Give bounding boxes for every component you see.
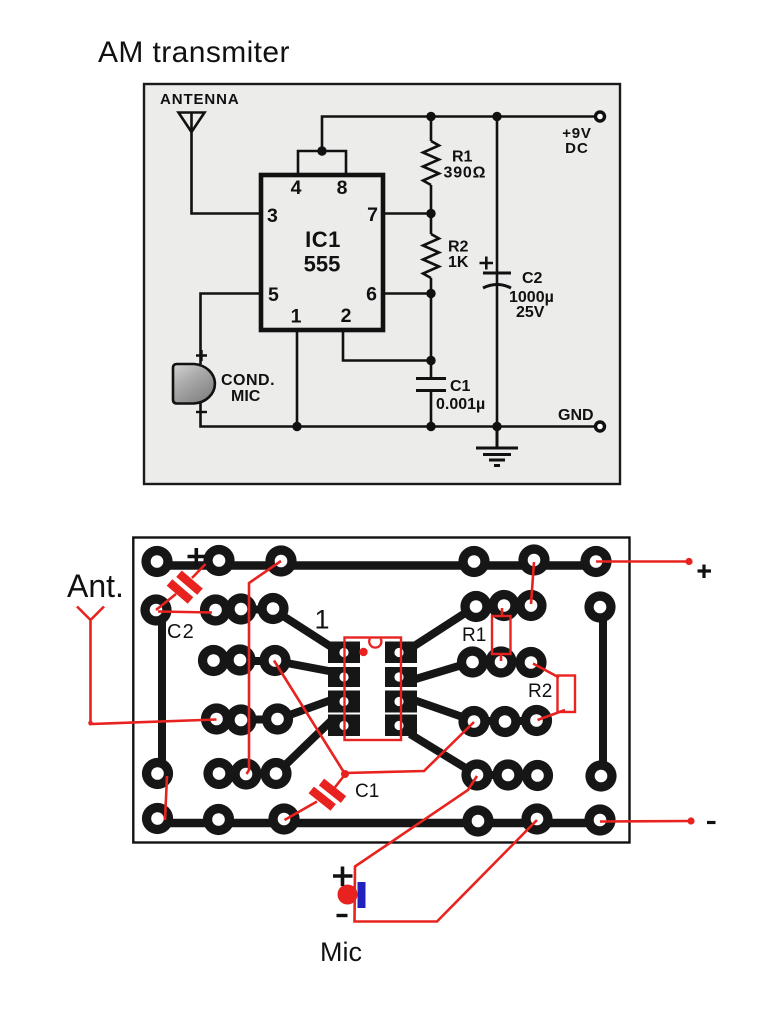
svg-text:1K: 1K [448,254,469,271]
junction C2 top [492,112,501,121]
wire R1 top [430,117,433,142]
trace pad to IC pin1 [273,610,336,651]
svg-text:MIC: MIC [231,388,261,405]
wire pin 2 to C1 top node [343,330,431,361]
resistor R1 [423,141,439,185]
svg-text:R2: R2 [448,239,469,256]
svg-text:6: 6 [366,284,377,306]
capacitor C1 plates [416,379,446,391]
plus sign supply right [698,565,712,579]
capacitor C2 silkscreen plates [170,574,201,601]
schematic texts [160,91,594,424]
svg-text:C2: C2 [167,621,195,643]
node C1 junction dot [341,770,349,778]
svg-text:GND: GND [558,407,594,424]
node - terminal dot [687,817,694,824]
svg-text:25V: 25V [516,304,545,321]
wire mic minus to ground rail [201,403,601,427]
svg-text:C1: C1 [355,781,379,802]
junction R1 top [426,112,435,121]
trace left vertical [158,609,166,774]
resistor R2 [423,234,439,278]
trace bottom rail [157,819,600,828]
schematic frame [144,84,620,484]
minus sign mic schematic [196,411,207,413]
trace row2 right group [476,602,531,610]
wire row5 to bottom rail left [165,776,167,820]
pads row 2 [140,594,171,625]
wire pin 6 node [383,292,431,295]
junction pin 7 node [426,209,435,218]
wire top rail to +9V [322,117,600,152]
plus sign mic [333,867,353,887]
wire pins 4-8 bracket [298,151,346,176]
trace row4 left group [216,716,277,724]
wire C1 node to pin6 pad [345,722,474,773]
wire mic plus [355,776,538,922]
wire pin 5 to mic + [201,294,262,365]
IC square pads [328,642,417,737]
pads row 3 [198,645,229,676]
IC notch [369,639,381,648]
IC square pad holes [339,648,403,730]
trace top rail [157,561,596,570]
junction pins 4-8 [317,146,326,155]
svg-text:R1: R1 [462,625,486,646]
trace pad to IC pin5 [410,734,477,775]
minus sign mic [337,914,348,917]
svg-text:7: 7 [367,204,378,226]
node + terminal dot [685,558,692,565]
svg-text:R1: R1 [452,149,473,166]
microphone symbol red body [338,885,358,905]
plus sign mic schematic [196,350,207,361]
svg-text:DC: DC [565,140,589,157]
antenna symbol [179,113,205,133]
trace pad to IC pin3 [277,699,334,720]
pads row 1 [141,546,172,577]
junction C1 ground [426,422,435,431]
plus sign C2 schematic [480,257,494,270]
svg-text:IC1: IC1 [305,227,341,252]
wire C1 bottom [430,390,433,427]
capacitor C2 silkscreen leads [156,564,206,610]
pcb board outline [133,538,629,843]
svg-text:Mic: Mic [320,937,362,967]
trace pad to IC pin7 [409,662,472,681]
wire C2 branch [496,117,499,427]
resistor R2 silkscreen [558,676,576,713]
wire pin 7 to R1/R2 node [383,212,431,215]
svg-text:COND.: COND. [221,372,275,389]
IC1 555 body [261,175,383,330]
svg-text:1: 1 [314,605,329,635]
microphone blue electret bar [358,882,366,908]
junction pin 6 node [426,289,435,298]
svg-text:0.001µ: 0.001µ [436,396,485,413]
IC1 outline silkscreen [345,638,402,741]
svg-text:C2: C2 [522,270,543,287]
ground symbol [476,426,518,466]
svg-text:2: 2 [341,305,352,327]
red terminal dots [88,558,694,825]
capacitor C1 silkscreen plates [311,782,343,807]
svg-text:390Ω: 390Ω [444,165,487,182]
wire C2 to pad2 [158,612,212,613]
trace pad to IC pin6 [411,699,474,721]
resistor R1 silkscreen [492,616,511,654]
trace right vertical [599,607,607,776]
svg-text:3: 3 [267,205,278,227]
trace pad to IC pin4 [276,718,334,774]
wire antenna to pin 3 [192,132,262,214]
svg-text:5: 5 [268,284,279,306]
capacitor C1 silkscreen leads [285,775,346,821]
pads row 6 [142,803,173,834]
svg-text:4: 4 [291,177,302,199]
trace row3 right group [472,658,531,666]
svg-text:Ant.: Ant. [67,568,124,604]
wire - supply terminal [600,820,691,823]
wire +9V to pin8 pad [531,562,534,604]
+9V terminal [596,112,605,121]
trace row5 left group [219,770,276,778]
wire + supply terminal [596,560,689,563]
black plus/minus marks on pcb [188,548,716,916]
trace row3 left group [214,657,276,665]
node antenna corner dot [88,721,93,726]
round pad holes [150,554,608,828]
svg-text:555: 555 [304,252,341,277]
GND terminal [596,422,605,431]
trace row4 right group [474,717,536,725]
capacitor C2 plates [483,273,511,288]
svg-text:AM transmiter: AM transmiter [98,36,290,69]
svg-text:ANTENNA: ANTENNA [160,91,240,108]
trace row5 right group [477,771,537,779]
junction pin 1 ground [292,422,301,431]
wire pin 1 down [296,330,299,427]
svg-text:R2: R2 [528,681,552,702]
junction pin 2 C1 node [426,356,435,365]
IC pin 1 marker dot [359,648,367,656]
plus sign near C2 pcb [188,548,206,566]
trace row2 left group [215,606,273,614]
svg-text:1: 1 [291,306,302,328]
round pads [140,544,616,836]
wire antenna net [77,607,217,725]
svg-text:C1: C1 [450,378,471,395]
svg-text:8: 8 [337,177,348,199]
wire R2 to C1 [430,278,433,378]
pads row 5 [142,758,173,789]
trace pad to IC pin8 [408,606,476,650]
red silkscreen overlay [77,561,691,922]
junction dots [292,112,501,431]
trace pad to IC pin2 [276,661,334,672]
minus sign supply right [707,821,716,824]
wire top rail to row5 pad [247,561,282,774]
pads row 4 [201,703,232,734]
junction C2 ground [492,422,501,431]
wire C1 node to pin2 pad [274,661,345,775]
wire R1 to R2 [430,185,433,234]
